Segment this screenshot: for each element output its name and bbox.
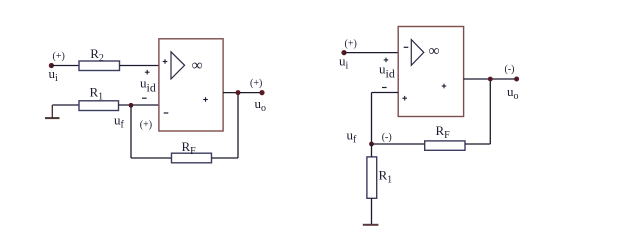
svg-text:uid: uid bbox=[140, 76, 156, 95]
svg-text:(+): (+) bbox=[140, 120, 152, 131]
- input mark (right op-amp) bbox=[404, 46, 409, 48]
vertical wire from u_f up to + input bbox=[371, 93, 373, 144]
wire RF to right vertical bbox=[465, 143, 490, 145]
wire RF to right vertical bbox=[212, 157, 239, 159]
op-amp triangle (left) bbox=[171, 52, 185, 79]
svg-text:uf: uf bbox=[347, 128, 358, 146]
junction node u_f bbox=[114, 103, 152, 131]
svg-text:∞: ∞ bbox=[429, 42, 440, 59]
svg-text:(-): (-) bbox=[382, 132, 392, 143]
svg-text:∞: ∞ bbox=[192, 57, 203, 74]
- input mark (left op-amp) bbox=[164, 112, 169, 114]
op-amp U1 box (left) bbox=[159, 39, 223, 131]
op-amp triangle (right) bbox=[411, 40, 424, 66]
+ output mark (left op-amp) bbox=[203, 97, 208, 102]
svg-text:(+): (+) bbox=[250, 78, 262, 89]
lower input wire (right op-amp + input) bbox=[372, 92, 399, 94]
+ output mark (right op-amp) bbox=[442, 84, 447, 89]
output junction dot (left) bbox=[236, 90, 241, 95]
svg-text:(+): (+) bbox=[53, 51, 65, 62]
wire junction down to feedback bbox=[130, 105, 132, 158]
feedback wire to RF bbox=[131, 157, 172, 159]
svg-text:uo: uo bbox=[255, 96, 267, 114]
svg-text:R1: R1 bbox=[379, 168, 393, 186]
wire u_f down to R1 bbox=[371, 144, 373, 157]
u_id labels (right) bbox=[379, 58, 395, 88]
svg-text:uid: uid bbox=[379, 62, 395, 81]
feedback wire u_f to RF bbox=[372, 143, 425, 145]
resistor RF (right circuit) bbox=[425, 123, 465, 150]
wire u_i to op-amp - input bbox=[344, 52, 398, 54]
output terminal dot u_o (left) bbox=[250, 78, 266, 114]
svg-text:uf: uf bbox=[114, 113, 125, 131]
svg-text:(-): (-) bbox=[505, 64, 515, 75]
output junction dot (right) bbox=[488, 77, 493, 82]
output wire (left) bbox=[223, 92, 262, 94]
+ input mark (right op-amp) bbox=[402, 96, 407, 101]
vertical wire up to output bbox=[237, 93, 239, 158]
ground (left circuit) bbox=[45, 105, 79, 118]
resistor R2 bbox=[79, 46, 120, 71]
svg-text:uo: uo bbox=[507, 84, 519, 102]
wire R2 to op-amp + input bbox=[120, 65, 159, 67]
ground (right circuit) bbox=[363, 224, 379, 226]
node u_i (right input terminal) bbox=[339, 39, 357, 72]
op-amp U2 box (right) bbox=[398, 27, 463, 117]
wire u_i to R2 bbox=[51, 65, 79, 67]
node u_f (right) bbox=[347, 128, 392, 147]
svg-text:R1: R1 bbox=[90, 85, 104, 103]
node u_i (left input terminal) bbox=[49, 51, 65, 84]
vertical wire up to output (right) bbox=[489, 79, 491, 144]
resistor R1 (right, vertical) bbox=[367, 157, 392, 198]
+ input mark (left op-amp) bbox=[163, 59, 168, 64]
svg-text:ui: ui bbox=[49, 66, 59, 84]
wire R1 to ground bbox=[371, 198, 373, 225]
wire R1 to op-amp - input bbox=[119, 104, 159, 106]
u_id labels (left) bbox=[140, 70, 156, 98]
resistor RF (left circuit) bbox=[172, 139, 212, 163]
svg-text:ui: ui bbox=[339, 54, 349, 72]
output wire (right) bbox=[464, 78, 517, 80]
svg-text:(+): (+) bbox=[345, 39, 357, 50]
output terminal dot u_o (right) bbox=[505, 64, 520, 102]
svg-text:RF: RF bbox=[436, 123, 451, 141]
resistor R1 bbox=[79, 85, 119, 111]
